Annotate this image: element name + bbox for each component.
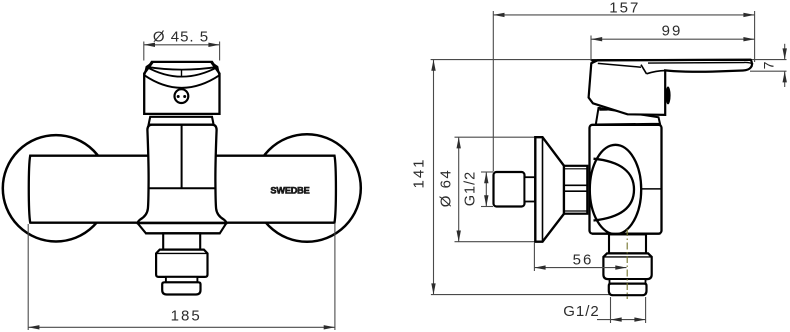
body bottom edge (side) (592, 233, 661, 235)
dimension 64 arrow bottom (457, 231, 461, 242)
dimension 7 line lower (784, 71, 786, 87)
extension line 185 right (334, 224, 336, 330)
indicator dot left (177, 95, 180, 98)
knob right corner wedge (211, 62, 220, 76)
dimension 7 arrow lower (783, 71, 787, 82)
handle knob (front) (144, 62, 219, 114)
dimension 64 arrow top (457, 137, 461, 148)
handle base (side) (589, 60, 752, 115)
dimension 185 arrow left (28, 325, 39, 329)
svg-text:56: 56 (573, 251, 594, 268)
dimension G1/2 (outlet) arrow left (611, 317, 622, 321)
dimension 64 extension bottom (455, 241, 538, 243)
svg-text:G1/2: G1/2 (563, 303, 600, 320)
handle saddle curve (647, 71, 666, 74)
dimension 157 extension left (492, 11, 494, 172)
dimension 7 arrow upper (783, 48, 787, 59)
cartridge center vertical line (181, 125, 183, 188)
svg-text:141: 141 (411, 157, 428, 188)
flange cone (535, 137, 564, 242)
nut band line 2 (564, 190, 587, 192)
dimension G1/2 (wall) ext top (481, 171, 493, 173)
svg-text:99: 99 (662, 22, 683, 39)
body side bulge ellipse (590, 145, 641, 234)
dimension G1/2 (wall) line (485, 172, 487, 207)
body inner horseshoe arc (594, 159, 635, 221)
dimension 56 arrow left (534, 265, 545, 269)
dimension 157/99 extension right (754, 11, 756, 62)
svg-text:185: 185 (171, 308, 202, 325)
handle top face line (598, 63, 641, 67)
lever blade inner line (648, 62, 753, 64)
handle bonnet (side) (596, 108, 660, 125)
outlet neck 1 (front) (163, 233, 200, 249)
dimension G1/2 (outlet) line (597, 319, 646, 321)
nut band line 1 (564, 184, 587, 186)
dimension 64 extension top (455, 136, 538, 138)
dimension 7 extension bottom (750, 70, 787, 72)
right escutcheon circle (253, 134, 361, 242)
outlet block (front) (156, 250, 207, 277)
dimension 45.5 arrow right (208, 43, 219, 47)
dimension 99 arrow left (591, 37, 602, 41)
dimension 56 line (534, 267, 626, 269)
valve body (side) (590, 125, 662, 234)
temperature indicator circle (175, 89, 189, 103)
aerator (front) (162, 282, 200, 294)
outlet block chamfer line (156, 252, 207, 254)
dimension G1/2 (outlet) ext left (610, 297, 612, 323)
dimension G1/2 (wall) ext bottom (481, 206, 493, 208)
knob top lens lower arc (146, 67, 218, 77)
hex nut (564, 166, 587, 214)
lever blade top line (591, 59, 751, 62)
nut inner line top (564, 168, 587, 170)
dimension 64 line (458, 137, 460, 242)
dimension G1/2 (wall) arrow bottom (484, 195, 488, 206)
dimension G1/2 (outlet) ext right (645, 297, 647, 323)
outlet centerline (dash-dot) (626, 229, 628, 299)
dimension 56 extension left (533, 243, 535, 271)
lower transition trapezoid (front) (138, 223, 227, 233)
horizontal body bar (29, 156, 336, 223)
dimension 141 arrow bottom (431, 283, 435, 294)
outlet neck 2 (front) (166, 277, 198, 282)
dimension 157 line (493, 14, 754, 16)
outlet neck 1 (side) (609, 234, 646, 253)
svg-text:Ø 45. 5: Ø 45. 5 (153, 28, 209, 45)
cartridge housing dome (138, 125, 226, 224)
svg-text:SWEDBE: SWEDBE (270, 186, 309, 196)
flange rim line (542, 137, 544, 242)
svg-text:Ø 64: Ø 64 (438, 169, 455, 208)
outlet block chamfer line (side) (604, 256, 652, 258)
body bottom edge line (30, 222, 334, 224)
svg-text:7: 7 (761, 61, 777, 69)
svg-text:G1/2: G1/2 (463, 171, 479, 206)
outlet bottom line under trapezoid (145, 232, 220, 234)
extension line 185 left (27, 224, 29, 330)
cartridge mid horizontal line (149, 187, 215, 189)
dimension 45.5 line (144, 44, 220, 46)
dimension 56 arrow right (615, 265, 626, 269)
dimension 99 arrow right (743, 37, 754, 41)
dimension 7 line upper (784, 44, 786, 60)
dimension 45.5 arrow left (144, 43, 155, 47)
dimension G1/2 (outlet) arrow right (634, 317, 645, 321)
dimension 45.5 extension left (143, 42, 145, 61)
handle collar (front) (149, 117, 214, 125)
body mid horizontal line (641, 188, 660, 190)
dimension 99 line (591, 38, 755, 40)
dimension 141 arrow top (431, 60, 435, 71)
dimension 157 arrow right (743, 13, 754, 17)
indicator dot right (183, 95, 186, 98)
knob top lens upper arc (146, 67, 218, 70)
wall connector cylinder (494, 172, 525, 207)
dimension 45.5 extension right (219, 42, 221, 61)
handle base shadow wedge (599, 107, 608, 111)
nut inner line bottom (564, 210, 587, 212)
dimension 157 arrow left (493, 13, 504, 17)
dimension 185 line (28, 326, 335, 328)
outlet neck 2 (side) (610, 279, 646, 284)
handle neck edge line (641, 65, 647, 74)
knob band arc (144, 75, 219, 88)
connector step (525, 177, 536, 201)
left escutcheon circle (3, 135, 109, 241)
dimension 141 line (433, 60, 435, 295)
outlet block (side) (603, 253, 651, 279)
extension line top (141/7 datum) (431, 59, 787, 61)
handle indicator ellipse (side) (665, 87, 670, 105)
dimension 185 arrow right (324, 325, 335, 329)
dimension 99 extension left (590, 36, 592, 62)
extension line bottom of 141 (431, 294, 610, 296)
svg-text:157: 157 (609, 0, 640, 16)
knob lens center tick (181, 70, 183, 77)
knob left corner wedge (144, 62, 153, 76)
aerator (side) (609, 284, 647, 296)
dimension G1/2 (wall) arrow top (484, 172, 488, 183)
